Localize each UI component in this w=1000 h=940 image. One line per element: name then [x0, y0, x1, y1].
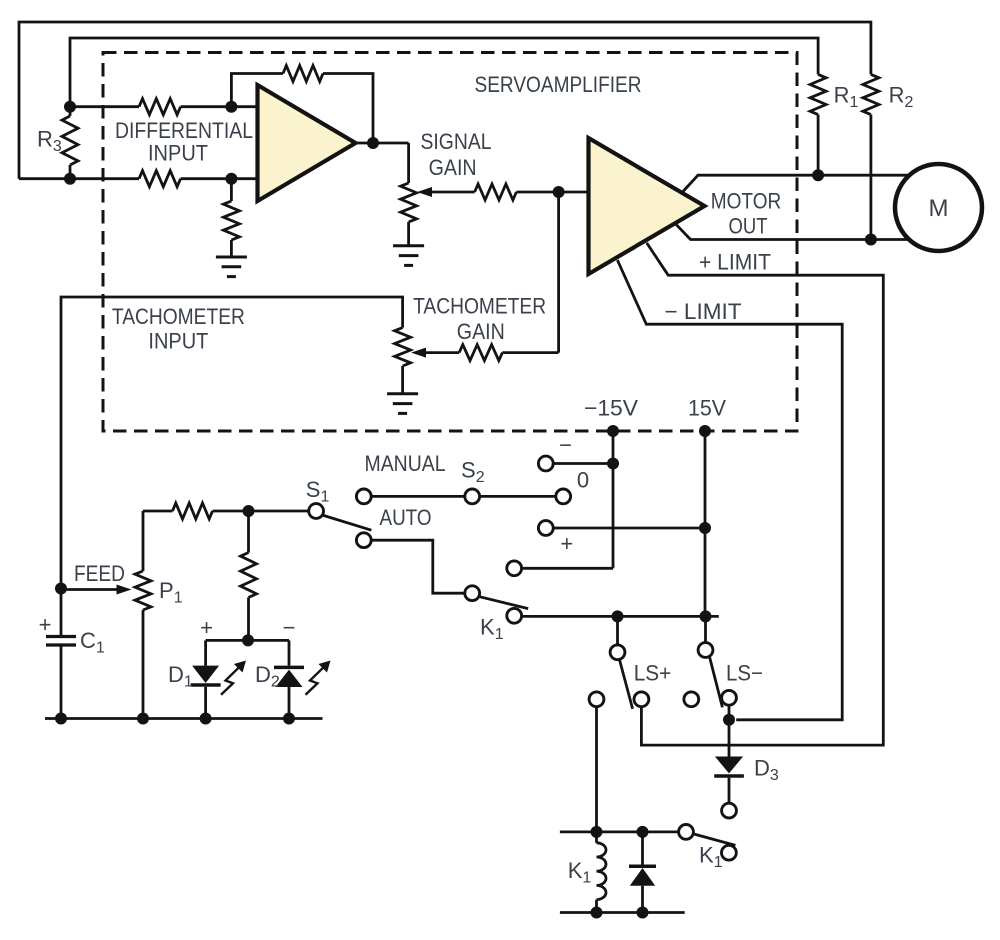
- svg-text:INPUT: INPUT: [148, 141, 208, 166]
- svg-text:LS+: LS+: [634, 661, 672, 686]
- svg-text:+ LIMIT: + LIMIT: [699, 250, 771, 275]
- svg-text:+: +: [560, 531, 573, 556]
- svg-text:TACHOMETER: TACHOMETER: [413, 294, 546, 319]
- svg-text:−15V: −15V: [584, 396, 638, 421]
- svg-text:SERVOAMPLIFIER: SERVOAMPLIFIER: [475, 72, 642, 97]
- svg-text:− LIMIT: − LIMIT: [665, 299, 742, 324]
- svg-text:GAIN: GAIN: [457, 319, 505, 344]
- svg-text:TACHOMETER: TACHOMETER: [112, 304, 245, 329]
- svg-text:SIGNAL: SIGNAL: [421, 129, 492, 154]
- svg-text:M: M: [929, 195, 949, 222]
- svg-text:INPUT: INPUT: [148, 329, 208, 354]
- svg-text:+: +: [200, 615, 213, 640]
- svg-text:0: 0: [577, 468, 589, 493]
- svg-text:+: +: [39, 612, 52, 637]
- svg-text:−: −: [283, 615, 296, 640]
- svg-text:DIFFERENTIAL: DIFFERENTIAL: [115, 118, 253, 143]
- svg-text:LS−: LS−: [726, 661, 763, 686]
- svg-text:MANUAL: MANUAL: [365, 451, 446, 476]
- svg-text:−: −: [559, 433, 572, 458]
- svg-text:FEED: FEED: [74, 561, 125, 586]
- svg-text:GAIN: GAIN: [429, 155, 477, 180]
- svg-text:OUT: OUT: [729, 214, 768, 239]
- svg-text:AUTO: AUTO: [380, 505, 432, 530]
- svg-text:MOTOR: MOTOR: [711, 189, 782, 214]
- svg-text:15V: 15V: [688, 396, 726, 421]
